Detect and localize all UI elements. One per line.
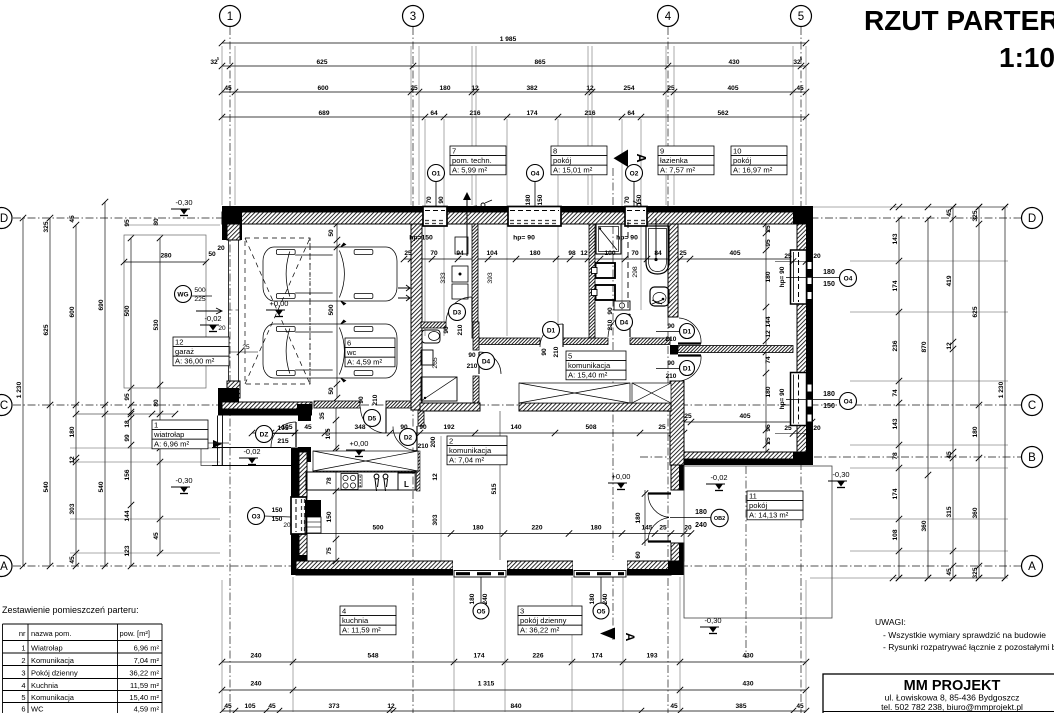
svg-text:D1: D1	[683, 328, 692, 335]
svg-text:180: 180	[972, 426, 979, 437]
svg-text:A: 36,00 m²: A: 36,00 m²	[175, 357, 215, 366]
svg-text:105: 105	[244, 703, 255, 710]
svg-text:kuchnia: kuchnia	[342, 616, 369, 625]
svg-text:74: 74	[892, 389, 899, 397]
svg-text:78: 78	[892, 452, 899, 460]
svg-text:-0,02: -0,02	[243, 447, 260, 456]
svg-text:25: 25	[242, 344, 250, 351]
svg-text:210: 210	[607, 319, 614, 330]
svg-text:90: 90	[541, 348, 548, 356]
svg-text:łazienka: łazienka	[660, 156, 689, 165]
svg-text:A: 5,99 m²: A: 5,99 m²	[452, 166, 487, 175]
svg-text:12: 12	[432, 473, 439, 481]
svg-text:2: 2	[449, 436, 453, 445]
svg-text:3: 3	[520, 606, 524, 615]
svg-text:3: 3	[410, 11, 416, 23]
svg-text:12: 12	[580, 250, 588, 257]
svg-text:210: 210	[457, 324, 464, 335]
svg-text:1:100: 1:100	[999, 42, 1054, 73]
svg-text:wiatrołap: wiatrołap	[153, 430, 184, 439]
svg-text:625: 625	[43, 324, 50, 335]
svg-text:94: 94	[456, 250, 464, 257]
svg-text:komunikacja: komunikacja	[568, 361, 611, 370]
svg-text:-0,30: -0,30	[704, 616, 721, 625]
svg-text:315: 315	[946, 506, 953, 517]
svg-text:70: 70	[624, 196, 631, 204]
svg-text:210: 210	[418, 443, 429, 450]
svg-text:500: 500	[194, 287, 206, 294]
svg-text:12: 12	[69, 456, 76, 464]
svg-text:180: 180	[823, 391, 835, 398]
svg-text:104: 104	[486, 250, 497, 257]
svg-text:419: 419	[946, 275, 953, 286]
svg-text:OB2: OB2	[714, 516, 725, 522]
svg-text:382: 382	[526, 85, 537, 92]
svg-text:1: 1	[227, 11, 233, 23]
svg-text:50: 50	[328, 387, 335, 395]
svg-text:180: 180	[695, 509, 707, 516]
svg-text:35: 35	[319, 412, 326, 420]
svg-text:pokój: pokój	[553, 156, 571, 165]
svg-text:6,96 m²: 6,96 m²	[134, 644, 160, 653]
svg-text:12: 12	[765, 330, 772, 338]
svg-text:20: 20	[813, 425, 821, 432]
svg-text:180: 180	[823, 269, 835, 276]
svg-text:4: 4	[21, 681, 25, 690]
svg-text:Komunikacja: Komunikacja	[31, 656, 75, 665]
svg-text:ul. Łowiskowa 8, 85-436 Bydgos: ul. Łowiskowa 8, 85-436 Bydgoszcz	[885, 693, 1020, 703]
svg-text:25: 25	[659, 525, 667, 532]
svg-text:70: 70	[426, 196, 433, 204]
svg-text:D1: D1	[683, 365, 692, 372]
svg-text:180: 180	[469, 593, 476, 604]
svg-text:Kuchnia: Kuchnia	[31, 681, 59, 690]
svg-text:70: 70	[430, 250, 438, 257]
svg-text:540: 540	[98, 481, 105, 492]
svg-text:325: 325	[972, 567, 979, 578]
svg-text:689: 689	[318, 110, 329, 117]
svg-text:1 315: 1 315	[478, 681, 495, 688]
svg-text:140: 140	[510, 424, 521, 431]
svg-text:548: 548	[367, 653, 378, 660]
svg-text:DZ: DZ	[260, 431, 269, 438]
svg-text:180: 180	[525, 194, 532, 205]
svg-text:pow. [m²]: pow. [m²]	[120, 629, 150, 638]
svg-text:12: 12	[175, 337, 183, 346]
svg-text:9: 9	[660, 146, 664, 155]
svg-text:210: 210	[372, 394, 379, 405]
svg-text:145: 145	[641, 525, 652, 532]
svg-text:15,40 m²: 15,40 m²	[129, 693, 159, 702]
svg-text:405: 405	[729, 250, 740, 257]
svg-text:10: 10	[733, 146, 741, 155]
svg-text:64: 64	[627, 110, 635, 117]
svg-text:20: 20	[283, 522, 291, 529]
svg-text:180: 180	[635, 512, 642, 523]
svg-text:+0,00: +0,00	[350, 439, 369, 448]
svg-text:215: 215	[277, 438, 289, 445]
svg-text:A: 6,96 m²: A: 6,96 m²	[154, 440, 189, 449]
svg-text:90: 90	[468, 352, 476, 359]
svg-text:280: 280	[160, 253, 171, 260]
svg-text:865: 865	[534, 59, 545, 66]
svg-text:500: 500	[328, 304, 335, 315]
svg-text:45: 45	[268, 703, 276, 710]
svg-text:180: 180	[590, 525, 601, 532]
svg-text:508: 508	[585, 424, 596, 431]
svg-text:150: 150	[272, 507, 283, 514]
svg-text:45: 45	[946, 451, 953, 459]
svg-text:373: 373	[328, 703, 339, 710]
svg-text:45: 45	[946, 209, 953, 217]
svg-text:pokój: pokój	[749, 501, 767, 510]
svg-text:D4: D4	[482, 358, 491, 365]
svg-text:A: 36,22 m²: A: 36,22 m²	[520, 626, 560, 635]
svg-text:20: 20	[218, 325, 226, 332]
svg-text:O2: O2	[630, 170, 639, 177]
svg-text:303: 303	[69, 503, 76, 514]
svg-text:UWAGI:: UWAGI:	[875, 617, 906, 627]
svg-text:25: 25	[410, 85, 418, 92]
svg-text:226: 226	[532, 653, 543, 660]
svg-text:Komunikacja: Komunikacja	[31, 693, 75, 702]
svg-text:Pokój dzienny: Pokój dzienny	[31, 669, 78, 678]
svg-text:hp=150: hp=150	[409, 235, 433, 242]
svg-text:333: 333	[440, 272, 447, 284]
svg-text:45: 45	[796, 85, 804, 92]
svg-text:hp= 90: hp= 90	[616, 235, 638, 242]
svg-text:pokój dzienny: pokój dzienny	[520, 616, 567, 625]
svg-text:174: 174	[892, 280, 899, 291]
svg-text:nazwa pom.: nazwa pom.	[31, 629, 71, 638]
svg-text:20: 20	[813, 253, 821, 260]
svg-text:385: 385	[735, 703, 746, 710]
svg-text:Zestawienie pomieszczeń parter: Zestawienie pomieszczeń parteru:	[2, 605, 139, 615]
svg-text:pokój: pokój	[733, 156, 751, 165]
svg-text:Wiatrołap: Wiatrołap	[31, 644, 63, 653]
svg-text:D2: D2	[404, 434, 413, 441]
svg-text:O5: O5	[597, 608, 606, 615]
svg-text:20: 20	[217, 245, 225, 252]
svg-text:5: 5	[798, 11, 804, 23]
svg-text:192: 192	[443, 424, 454, 431]
svg-text:216: 216	[469, 110, 480, 117]
svg-text:4: 4	[342, 606, 346, 615]
svg-text:A: 11,59 m²: A: 11,59 m²	[342, 626, 381, 635]
svg-text:74: 74	[765, 356, 772, 364]
svg-text:hp= 90: hp= 90	[779, 388, 786, 409]
svg-text:90: 90	[358, 396, 365, 404]
svg-text:690: 690	[98, 299, 105, 310]
svg-text:A: 16,97 m²: A: 16,97 m²	[733, 166, 773, 175]
svg-text:150: 150	[636, 194, 643, 205]
svg-text:95: 95	[765, 424, 772, 432]
svg-text:430: 430	[742, 653, 753, 660]
svg-text:220: 220	[531, 525, 542, 532]
svg-text:4: 4	[665, 11, 672, 23]
svg-text:150: 150	[326, 511, 333, 522]
svg-text:254: 254	[623, 85, 634, 92]
svg-text:- Wszystkie wymiary sprawdzić: - Wszystkie wymiary sprawdzić na budowie	[883, 630, 1046, 640]
svg-text:180: 180	[765, 386, 772, 397]
svg-text:D1: D1	[547, 327, 556, 334]
svg-text:50: 50	[208, 251, 216, 258]
svg-text:180: 180	[69, 426, 76, 437]
svg-text:870: 870	[921, 341, 928, 352]
svg-text:12: 12	[586, 85, 594, 92]
svg-text:174: 174	[892, 488, 899, 499]
svg-text:A: 15,40 m²: A: 15,40 m²	[568, 371, 608, 380]
svg-text:105: 105	[325, 428, 332, 439]
svg-text:25: 25	[784, 253, 792, 260]
svg-text:80: 80	[153, 399, 160, 407]
svg-text:7: 7	[452, 146, 456, 155]
svg-text:45: 45	[224, 703, 232, 710]
svg-text:360: 360	[972, 507, 979, 518]
svg-text:45: 45	[69, 556, 76, 564]
svg-text:O1: O1	[432, 170, 441, 177]
svg-text:pom. techn.: pom. techn.	[452, 156, 492, 165]
svg-text:25: 25	[765, 437, 772, 445]
svg-text:1 230: 1 230	[998, 381, 1005, 398]
svg-text:562: 562	[717, 110, 728, 117]
svg-text:90: 90	[607, 307, 614, 315]
svg-text:298: 298	[632, 266, 639, 278]
svg-text:210: 210	[666, 373, 677, 380]
svg-text:75: 75	[326, 547, 333, 555]
svg-text:O3: O3	[252, 513, 261, 520]
svg-text:840: 840	[510, 703, 521, 710]
svg-text:144: 144	[124, 510, 131, 521]
svg-text:11: 11	[749, 491, 757, 500]
svg-text:600: 600	[317, 85, 328, 92]
svg-text:C: C	[0, 400, 8, 412]
svg-text:25: 25	[784, 425, 792, 432]
svg-text:+0,00: +0,00	[270, 299, 289, 308]
svg-text:4,59 m²: 4,59 m²	[134, 705, 160, 713]
svg-text:1: 1	[21, 644, 25, 653]
svg-text:530: 530	[153, 319, 160, 330]
svg-text:45: 45	[153, 532, 160, 540]
svg-text:500: 500	[372, 525, 383, 532]
svg-text:430: 430	[728, 59, 739, 66]
svg-text:108: 108	[892, 529, 899, 540]
svg-text:123: 123	[124, 545, 131, 556]
svg-text:240: 240	[250, 681, 261, 688]
svg-text:-0,02: -0,02	[710, 473, 727, 482]
svg-text:405: 405	[727, 85, 738, 92]
svg-text:325: 325	[43, 221, 50, 232]
svg-text:25: 25	[684, 413, 692, 420]
svg-text:150: 150	[823, 281, 835, 288]
svg-text:18: 18	[124, 420, 131, 428]
svg-text:240: 240	[695, 522, 707, 529]
svg-text:A: 14,13 m²: A: 14,13 m²	[749, 511, 789, 520]
svg-text:405: 405	[739, 413, 750, 420]
svg-text:C: C	[1028, 400, 1036, 412]
svg-text:98: 98	[568, 250, 576, 257]
svg-text:95: 95	[124, 219, 131, 227]
svg-text:180: 180	[439, 85, 450, 92]
svg-text:210: 210	[467, 363, 478, 370]
svg-text:D5: D5	[368, 415, 377, 422]
svg-text:90: 90	[419, 424, 427, 431]
svg-text:A: 15,01 m²: A: 15,01 m²	[553, 166, 593, 175]
svg-text:143: 143	[892, 418, 899, 429]
svg-text:210: 210	[553, 346, 560, 357]
svg-text:D3: D3	[453, 309, 462, 316]
svg-text:L: L	[404, 480, 409, 489]
svg-text:-0,30: -0,30	[175, 476, 192, 485]
svg-text:3: 3	[21, 669, 25, 678]
svg-text:70: 70	[631, 250, 639, 257]
svg-text:90: 90	[667, 323, 675, 330]
svg-text:2: 2	[21, 656, 25, 665]
svg-text:150: 150	[272, 516, 283, 523]
svg-text:95: 95	[124, 393, 131, 401]
svg-text:O5: O5	[477, 608, 486, 615]
svg-text:193: 193	[646, 653, 657, 660]
svg-text:6: 6	[21, 705, 25, 713]
svg-text:- Rysunki rozpatrywać łącznie: - Rysunki rozpatrywać łącznie z pozostał…	[883, 642, 1054, 652]
svg-text:216: 216	[584, 110, 595, 117]
svg-text:hp= 90: hp= 90	[779, 266, 786, 287]
svg-text:143: 143	[892, 233, 899, 244]
svg-text:WG: WG	[177, 291, 188, 298]
svg-text:A: A	[1028, 561, 1036, 573]
svg-text:45: 45	[69, 215, 76, 223]
svg-text:180: 180	[529, 250, 540, 257]
svg-text:200: 200	[430, 436, 437, 447]
svg-text:180: 180	[589, 593, 596, 604]
svg-text:36,22 m²: 36,22 m²	[129, 669, 159, 678]
svg-text:5: 5	[21, 693, 25, 702]
svg-text:8: 8	[553, 146, 557, 155]
svg-text:O4: O4	[531, 170, 540, 177]
svg-text:303: 303	[432, 514, 439, 525]
svg-text:600: 600	[69, 306, 76, 317]
svg-text:12: 12	[471, 85, 479, 92]
svg-text:325: 325	[972, 210, 979, 221]
svg-text:A: A	[623, 633, 637, 642]
svg-text:393: 393	[487, 272, 494, 284]
svg-text:B: B	[1028, 452, 1036, 464]
svg-text:45: 45	[304, 424, 312, 431]
svg-text:1: 1	[154, 420, 158, 429]
svg-text:174: 174	[473, 653, 484, 660]
svg-text:20: 20	[684, 525, 692, 532]
svg-text:garaż: garaż	[175, 347, 194, 356]
svg-text:D: D	[1028, 213, 1036, 225]
svg-text:RZUT PARTERU: RZUT PARTERU	[864, 5, 1054, 36]
svg-text:174: 174	[526, 110, 537, 117]
svg-text:45: 45	[796, 703, 804, 710]
svg-text:64: 64	[430, 110, 438, 117]
svg-text:348: 348	[354, 424, 365, 431]
svg-text:430: 430	[742, 681, 753, 688]
svg-text:144: 144	[765, 316, 772, 327]
svg-text:45: 45	[946, 568, 953, 576]
svg-text:25: 25	[679, 250, 687, 257]
svg-text:6: 6	[347, 338, 351, 347]
svg-text:D: D	[0, 213, 8, 225]
svg-text:240: 240	[250, 653, 261, 660]
svg-text:1 985: 1 985	[500, 36, 517, 43]
svg-text:11,59 m²: 11,59 m²	[130, 681, 160, 690]
svg-text:105: 105	[277, 425, 289, 432]
svg-text:60: 60	[635, 551, 642, 559]
svg-text:A: 7,04 m²: A: 7,04 m²	[449, 456, 484, 465]
svg-text:156: 156	[124, 469, 131, 480]
svg-text:84: 84	[654, 250, 662, 257]
svg-text:12: 12	[946, 342, 953, 350]
svg-text:25: 25	[765, 225, 772, 233]
svg-text:7,04 m²: 7,04 m²	[134, 656, 160, 665]
svg-text:45: 45	[670, 703, 678, 710]
svg-text:45: 45	[224, 85, 232, 92]
svg-text:225: 225	[194, 296, 206, 303]
svg-text:nr: nr	[19, 629, 26, 638]
svg-text:A: 4,59 m²: A: 4,59 m²	[347, 358, 382, 367]
svg-text:25: 25	[658, 424, 666, 431]
svg-text:-0,02: -0,02	[204, 314, 221, 323]
svg-text:5: 5	[568, 351, 572, 360]
svg-text:90: 90	[667, 360, 675, 367]
svg-text:+0,00: +0,00	[612, 472, 631, 481]
svg-text:D4: D4	[620, 319, 629, 326]
svg-text:236: 236	[892, 340, 899, 351]
svg-text:210: 210	[666, 336, 677, 343]
svg-text:625: 625	[316, 59, 327, 66]
svg-text:WC: WC	[31, 705, 44, 713]
svg-text:O4: O4	[844, 275, 853, 282]
svg-text:99: 99	[124, 434, 131, 442]
svg-text:80: 80	[153, 218, 160, 226]
svg-text:90: 90	[443, 326, 450, 334]
svg-text:-0,30: -0,30	[175, 198, 192, 207]
svg-text:515: 515	[491, 483, 498, 494]
svg-text:A: A	[0, 561, 8, 573]
svg-text:A: 7,57 m²: A: 7,57 m²	[660, 166, 695, 175]
svg-text:komunikacja: komunikacja	[449, 446, 492, 455]
svg-text:O4: O4	[844, 398, 853, 405]
svg-text:90: 90	[438, 196, 445, 204]
svg-text:-0,30: -0,30	[832, 470, 849, 479]
svg-text:150: 150	[823, 403, 835, 410]
svg-text:12: 12	[387, 703, 395, 710]
svg-text:hp= 90: hp= 90	[513, 235, 535, 242]
svg-text:174: 174	[591, 653, 602, 660]
svg-text:180: 180	[472, 525, 483, 532]
svg-text:360: 360	[921, 520, 928, 531]
svg-text:50: 50	[328, 229, 335, 237]
svg-text:wc: wc	[346, 348, 356, 357]
svg-text:150: 150	[537, 194, 544, 205]
svg-text:180: 180	[765, 271, 772, 282]
svg-text:78: 78	[326, 477, 333, 485]
svg-text:500: 500	[124, 305, 131, 316]
svg-text:tel. 502 782 238, biuro@mmproj: tel. 502 782 238, biuro@mmprojekt.pl	[881, 702, 1023, 712]
svg-text:540: 540	[43, 481, 50, 492]
svg-text:1 230: 1 230	[16, 381, 23, 398]
svg-text:95: 95	[765, 239, 772, 247]
svg-text:A: A	[634, 153, 648, 162]
